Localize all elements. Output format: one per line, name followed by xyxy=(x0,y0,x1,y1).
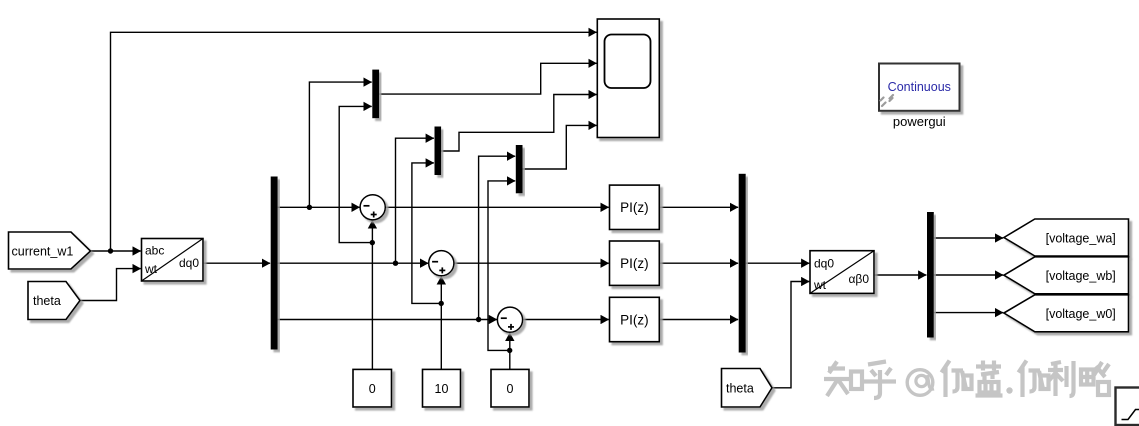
wire theta2 to dq0-ab0 wt input xyxy=(772,282,809,388)
wire constant 0 to Sum1 plus input xyxy=(371,220,373,369)
node junction on current_w1 wire xyxy=(108,248,113,253)
watermark text xyxy=(824,361,1109,399)
constant block 0b xyxy=(491,369,529,407)
PI controller PI(z)3 xyxy=(610,297,660,341)
svg-text:PI(z): PI(z) xyxy=(620,256,649,271)
svg-text:theta: theta xyxy=(33,294,61,308)
node junction below Sum3 xyxy=(507,348,512,353)
wire q line tap to Mux2 input 1 xyxy=(396,138,434,263)
wire abc-dq0 output to demux xyxy=(203,262,270,264)
powergui block xyxy=(879,64,960,111)
svg-text:0: 0 xyxy=(507,382,514,396)
wire theta to wt input xyxy=(80,269,141,301)
abc to dq0 transform block U1 xyxy=(142,239,204,282)
from tag theta xyxy=(28,282,80,320)
from tag theta2 xyxy=(722,369,773,408)
svg-text:[voltage_w0]: [voltage_w0] xyxy=(1046,307,1116,321)
svg-text:wt: wt xyxy=(813,278,827,292)
powergui broken link icon xyxy=(881,95,894,106)
wire 0 line tap to Mux3 input 1 xyxy=(479,156,516,319)
svg-text:10: 10 xyxy=(435,382,449,396)
wire PI(z)3 output to Mux4 xyxy=(659,319,738,321)
powergui label xyxy=(893,114,946,129)
mux3 bar xyxy=(516,145,523,193)
PI controller PI(z)1 xyxy=(610,185,660,229)
wire PI(z)1 output to Mux4 xyxy=(659,206,738,208)
wire branch to Scope input 1 xyxy=(111,32,597,251)
wire d line tap to Mux1 input 1 xyxy=(309,82,371,207)
PI controller PI(z)2 xyxy=(610,241,660,285)
wire demux2 output 1 to voltage_wa xyxy=(934,237,1003,239)
svg-text:powergui: powergui xyxy=(893,114,946,129)
saturation block xyxy=(1116,388,1139,426)
node junction on d line xyxy=(307,205,312,210)
wire demux output 0 to Sum3 xyxy=(278,319,497,321)
svg-text:dq0: dq0 xyxy=(814,257,834,271)
goto tag voltage_w0 xyxy=(1004,295,1129,332)
demux1 bar xyxy=(271,177,278,350)
wire Sum2 output to PI(z)2 xyxy=(454,262,609,264)
svg-text:PI(z): PI(z) xyxy=(620,312,649,327)
node junction on 0 line xyxy=(476,317,481,322)
wire Sum1 ref tap to Mux1 input 2 xyxy=(339,106,372,242)
svg-text:abc: abc xyxy=(145,244,164,258)
svg-text:[voltage_wa]: [voltage_wa] xyxy=(1046,232,1116,246)
constant block 0 xyxy=(353,369,392,407)
wire dq0-ab0 output to demux2 xyxy=(874,274,926,276)
wire Mux1 output to Scope input 2 xyxy=(379,63,596,94)
constant block 10 xyxy=(423,369,461,407)
demux2 bar xyxy=(927,212,934,338)
wire Sum3 ref tap to Mux3 input 2 xyxy=(488,181,515,351)
dq0 to alphabeta0 transform block U2 xyxy=(810,251,874,294)
svg-text:current_w1: current_w1 xyxy=(12,245,74,259)
node junction on q line xyxy=(393,261,398,266)
wire Sum1 output to PI(z)1 xyxy=(385,206,609,208)
mux2 bar xyxy=(435,127,442,176)
wire constant 0b to Sum3 plus input xyxy=(509,333,511,370)
scope block xyxy=(597,19,659,138)
sum block Sum3 xyxy=(497,307,522,332)
node junction below Sum2 xyxy=(439,301,444,306)
wire Mux4 output to dq0-ab0 input xyxy=(746,262,810,264)
mux4 bar xyxy=(739,174,746,353)
svg-text:wt: wt xyxy=(144,262,158,276)
svg-text:[voltage_wb]: [voltage_wb] xyxy=(1046,269,1116,283)
wire Sum2 ref tap to Mux2 input 2 xyxy=(412,163,441,304)
wire demux2 output 2 to voltage_wb xyxy=(934,274,1003,276)
mux1 bar xyxy=(372,70,379,119)
sum block Sum1 xyxy=(360,195,385,220)
wire Mux3 output to Scope input 4 xyxy=(523,125,597,169)
wire Mux2 output to Scope input 3 xyxy=(441,95,597,152)
goto tag voltage_wa xyxy=(1004,219,1129,256)
wire demux output q to Sum2 xyxy=(278,262,429,264)
svg-text:Continuous: Continuous xyxy=(888,80,951,94)
svg-text:dq0: dq0 xyxy=(179,256,199,270)
node junction below Sum1 xyxy=(370,240,375,245)
from tag current_w1 xyxy=(9,232,91,269)
wire demux2 output 3 to voltage_w0 xyxy=(934,312,1003,314)
wire Sum3 output to PI(z)3 xyxy=(523,319,609,321)
goto tag voltage_wb xyxy=(1004,257,1129,294)
wire PI(z)2 output to Mux4 xyxy=(659,262,738,264)
wire from current_w1 to abc input xyxy=(91,250,141,252)
svg-text:theta: theta xyxy=(726,382,754,396)
svg-text:0: 0 xyxy=(369,382,376,396)
sum block Sum2 xyxy=(429,251,454,276)
svg-text:PI(z): PI(z) xyxy=(620,200,649,215)
wire demux output d to Sum1 xyxy=(278,206,360,208)
svg-text:αβ0: αβ0 xyxy=(848,272,869,286)
wire constant 10 to Sum2 plus input xyxy=(440,276,442,369)
